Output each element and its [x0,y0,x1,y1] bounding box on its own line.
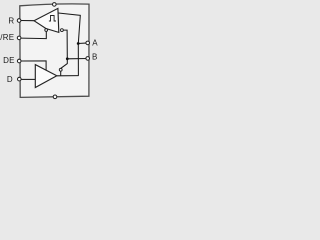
svg-text:/RE: /RE [0,33,14,42]
svg-text:R: R [8,16,14,25]
svg-text:B: B [92,53,97,62]
svg-text:A: A [92,39,98,48]
svg-text:D: D [7,75,13,84]
svg-text:DE: DE [3,56,15,65]
